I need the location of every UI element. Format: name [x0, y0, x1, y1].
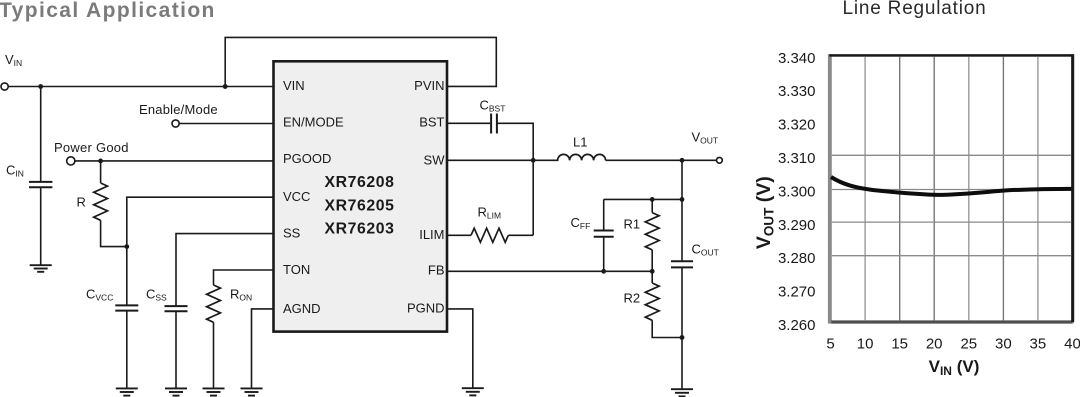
wire BST [447, 122, 490, 124]
wire R upper lead [100, 161, 102, 183]
svg-text:10: 10 [857, 335, 874, 352]
node junction VOUT branch [680, 158, 685, 163]
resistor R2 [651, 271, 653, 283]
capacitor CSS [165, 306, 188, 311]
svg-text:5: 5 [826, 335, 834, 352]
wire PGOOD [75, 160, 274, 162]
chart x axis labels [826, 335, 1080, 352]
wire CSS lower lead [175, 311, 177, 388]
ground PGND [462, 388, 484, 395]
svg-text:L1: L1 [573, 134, 587, 149]
svg-text:VIN: VIN [283, 78, 305, 93]
svg-text:3.310: 3.310 [778, 150, 816, 167]
ground CSS [165, 388, 187, 395]
resistor R1 [651, 199, 653, 212]
svg-text:3.290: 3.290 [778, 217, 816, 234]
terminal Enable/Mode [172, 120, 179, 127]
wire VIN input rail [8, 86, 273, 88]
svg-text:R2: R2 [624, 291, 641, 306]
wire CIN lower lead [40, 187, 42, 265]
svg-text:BST: BST [419, 115, 444, 130]
capacitor CVCC [115, 305, 138, 310]
svg-text:SS: SS [283, 226, 301, 241]
svg-text:VCC: VCC [283, 189, 310, 204]
wire CIN upper lead [40, 87, 42, 182]
node junction R tap [98, 159, 103, 164]
svg-text:40: 40 [1064, 335, 1080, 352]
capacitor COUT [671, 261, 693, 267]
svg-text:30: 30 [995, 335, 1012, 352]
capacitor CFF [603, 199, 605, 230]
node junction R1/R2 FB [650, 269, 655, 274]
node junction R2/COUT [680, 335, 685, 340]
wire SW to VOUT [606, 159, 717, 161]
ground CVCC [116, 388, 138, 395]
node junction CFF bottom [601, 269, 606, 274]
resistor RLIM [447, 234, 471, 236]
wire R lower lead to VCC node [101, 220, 127, 246]
wire EN/MODE [180, 123, 274, 125]
ground CIN [30, 265, 52, 272]
node junction CIN tap [38, 84, 43, 89]
svg-text:TON: TON [283, 262, 310, 277]
wire CFF/R1 top rail [604, 198, 682, 200]
ground COUT [671, 389, 693, 396]
svg-text:3.340: 3.340 [778, 50, 816, 67]
wire RON lower lead [213, 322, 215, 388]
svg-text:XR76208: XR76208 [324, 174, 394, 191]
wire FB [447, 270, 652, 272]
svg-text:3.300: 3.300 [778, 183, 816, 200]
terminal Power Good [67, 157, 75, 165]
wire PGND [447, 309, 473, 388]
svg-text:FB: FB [428, 263, 445, 278]
ground RON [203, 388, 225, 395]
chart plot area border [829, 54, 1072, 323]
chart y axis labels [778, 50, 816, 334]
svg-text:R1: R1 [624, 217, 641, 232]
svg-text:SW: SW [424, 152, 446, 167]
wire SW [447, 159, 559, 161]
svg-text:15: 15 [891, 335, 908, 352]
capacitor CBST [491, 114, 497, 134]
wire CVCC lower lead [126, 311, 128, 389]
wire PVIN top loop [225, 37, 496, 86]
node junction SW riser [531, 158, 536, 163]
node junction CFF-top rail to VOUT line [680, 197, 685, 202]
ground AGND [241, 388, 263, 395]
wire COUT lower lead [681, 267, 683, 388]
IC pin labels right [407, 78, 445, 316]
svg-text:3.260: 3.260 [778, 317, 816, 334]
svg-text:35: 35 [1030, 335, 1047, 352]
resistor R [94, 183, 108, 220]
terminal VIN [1, 83, 8, 90]
chart horizontal gridlines [832, 155, 1071, 255]
wire CBST to SW riser [497, 123, 533, 235]
IC pin labels left [283, 78, 344, 316]
svg-text:Power Good: Power Good [54, 140, 129, 155]
svg-text:3.270: 3.270 [778, 284, 816, 301]
svg-text:ILIM: ILIM [419, 227, 444, 242]
svg-text:R: R [77, 195, 86, 210]
svg-text:Typical Application: Typical Application [0, 0, 216, 22]
svg-text:XR76203: XR76203 [324, 221, 394, 238]
IC U1 body [274, 61, 448, 331]
svg-text:PVIN: PVIN [414, 78, 444, 93]
chart curve line regulation [831, 177, 1072, 195]
node junction R/VCC [124, 244, 129, 249]
svg-text:Enable/Mode: Enable/Mode [139, 102, 218, 117]
wire VCC [127, 197, 274, 305]
wire SS [176, 234, 274, 306]
svg-text:PGOOD: PGOOD [283, 151, 331, 166]
svg-text:20: 20 [926, 335, 943, 352]
IC part numbers XR76208 XR76205 XR76203 [324, 174, 394, 238]
svg-text:XR76205: XR76205 [324, 197, 394, 214]
capacitor CIN [29, 182, 52, 187]
wire TON [214, 270, 274, 285]
wire VOUT down branch [681, 160, 683, 261]
wire AGND [252, 309, 274, 388]
svg-text:EN/MODE: EN/MODE [283, 115, 344, 130]
node junction VIN/PVIN riser [223, 84, 228, 89]
svg-text:VIN (V): VIN (V) [929, 357, 980, 378]
wire R2 bottom to COUT line [652, 320, 682, 337]
inductor L1 [558, 154, 606, 160]
svg-text:3.320: 3.320 [778, 117, 816, 134]
svg-text:AGND: AGND [283, 301, 321, 316]
svg-text:Line Regulation: Line Regulation [842, 0, 986, 19]
chart vertical gridlines [865, 57, 1038, 321]
node junction R1 top [650, 197, 655, 202]
svg-text:25: 25 [960, 335, 977, 352]
terminal VOUT [717, 157, 723, 163]
svg-text:3.330: 3.330 [778, 83, 816, 100]
svg-text:3.280: 3.280 [778, 250, 816, 267]
resistor RON [207, 285, 221, 322]
svg-text:PGND: PGND [407, 301, 445, 316]
